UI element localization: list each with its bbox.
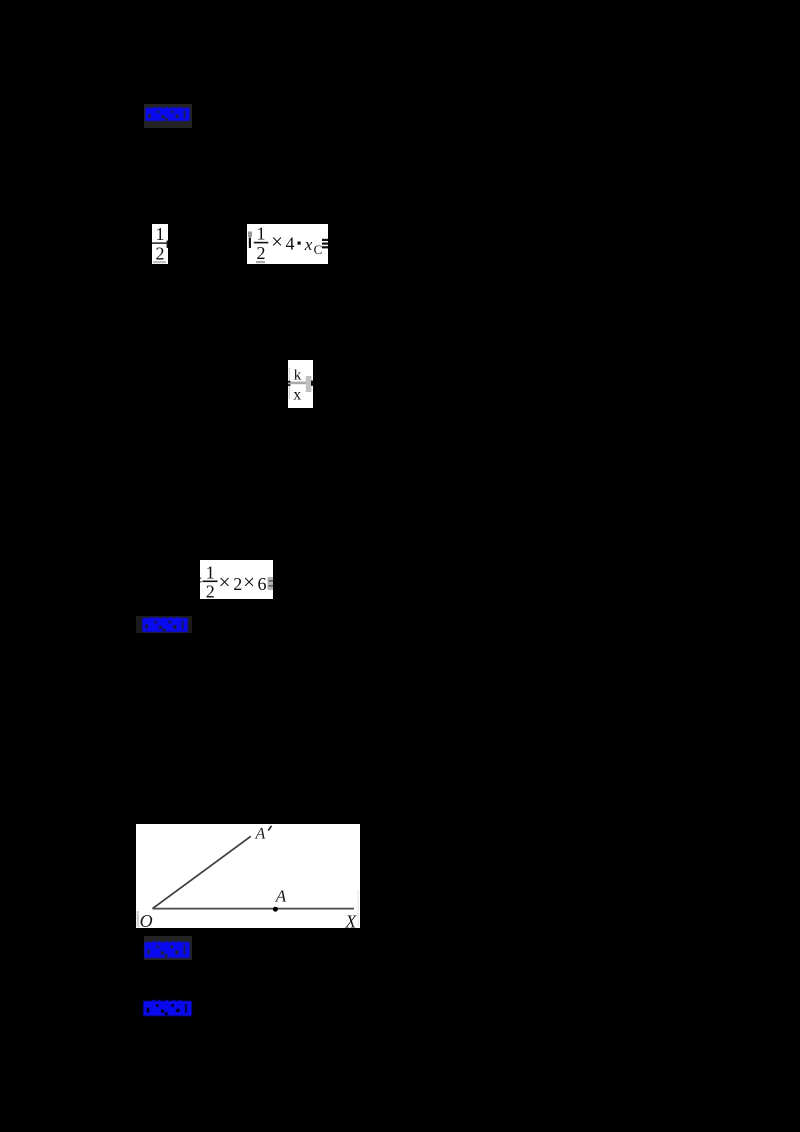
svg-text:k: k — [293, 368, 301, 384]
svg-text:1: 1 — [205, 563, 214, 583]
equation box 1: fraction 1/2 — [152, 224, 168, 264]
equation box 2: 1/2 x 4 . xC = — [247, 224, 328, 264]
faint grey line right — [358, 890, 359, 927]
blue label 3 text — [144, 941, 190, 958]
svg-text:X: X — [345, 911, 358, 928]
svg-text:×: × — [271, 229, 283, 253]
svg-text:2: 2 — [205, 582, 214, 600]
blue label 1 highlight bg — [144, 104, 192, 128]
blue label 4 text — [143, 1000, 192, 1016]
svg-text:×: × — [218, 570, 230, 594]
diagram white box — [136, 824, 360, 928]
equation box 4: 1/2 x 2 x 6 = — [200, 560, 273, 599]
equation box 3: fraction k/x — [288, 360, 313, 408]
blue label 1 text — [145, 107, 190, 121]
svg-text:x: x — [304, 235, 313, 254]
blue label 3 highlight bg — [144, 936, 192, 960]
svg-text:2: 2 — [156, 244, 165, 264]
svg-text:O: O — [140, 911, 153, 928]
blue label 2 text — [142, 617, 188, 632]
svg-text:1: 1 — [257, 224, 266, 244]
svg-text:4: 4 — [286, 233, 295, 253]
svg-text:2: 2 — [233, 574, 242, 594]
svg-text:6: 6 — [257, 574, 266, 594]
svg-text:1: 1 — [156, 224, 165, 244]
svg-text:C: C — [314, 242, 323, 257]
svg-text:A: A — [255, 825, 266, 842]
svg-text:x: x — [293, 386, 301, 403]
svg-text:×: × — [243, 570, 255, 594]
point A dot — [273, 907, 278, 912]
svg-text:2: 2 — [257, 243, 266, 263]
blue label 2 highlight bg — [136, 616, 192, 633]
ray O to A' — [153, 836, 251, 908]
grey strip left edge — [137, 911, 139, 927]
svg-text:A: A — [275, 887, 287, 906]
ray O to X — [153, 908, 355, 910]
